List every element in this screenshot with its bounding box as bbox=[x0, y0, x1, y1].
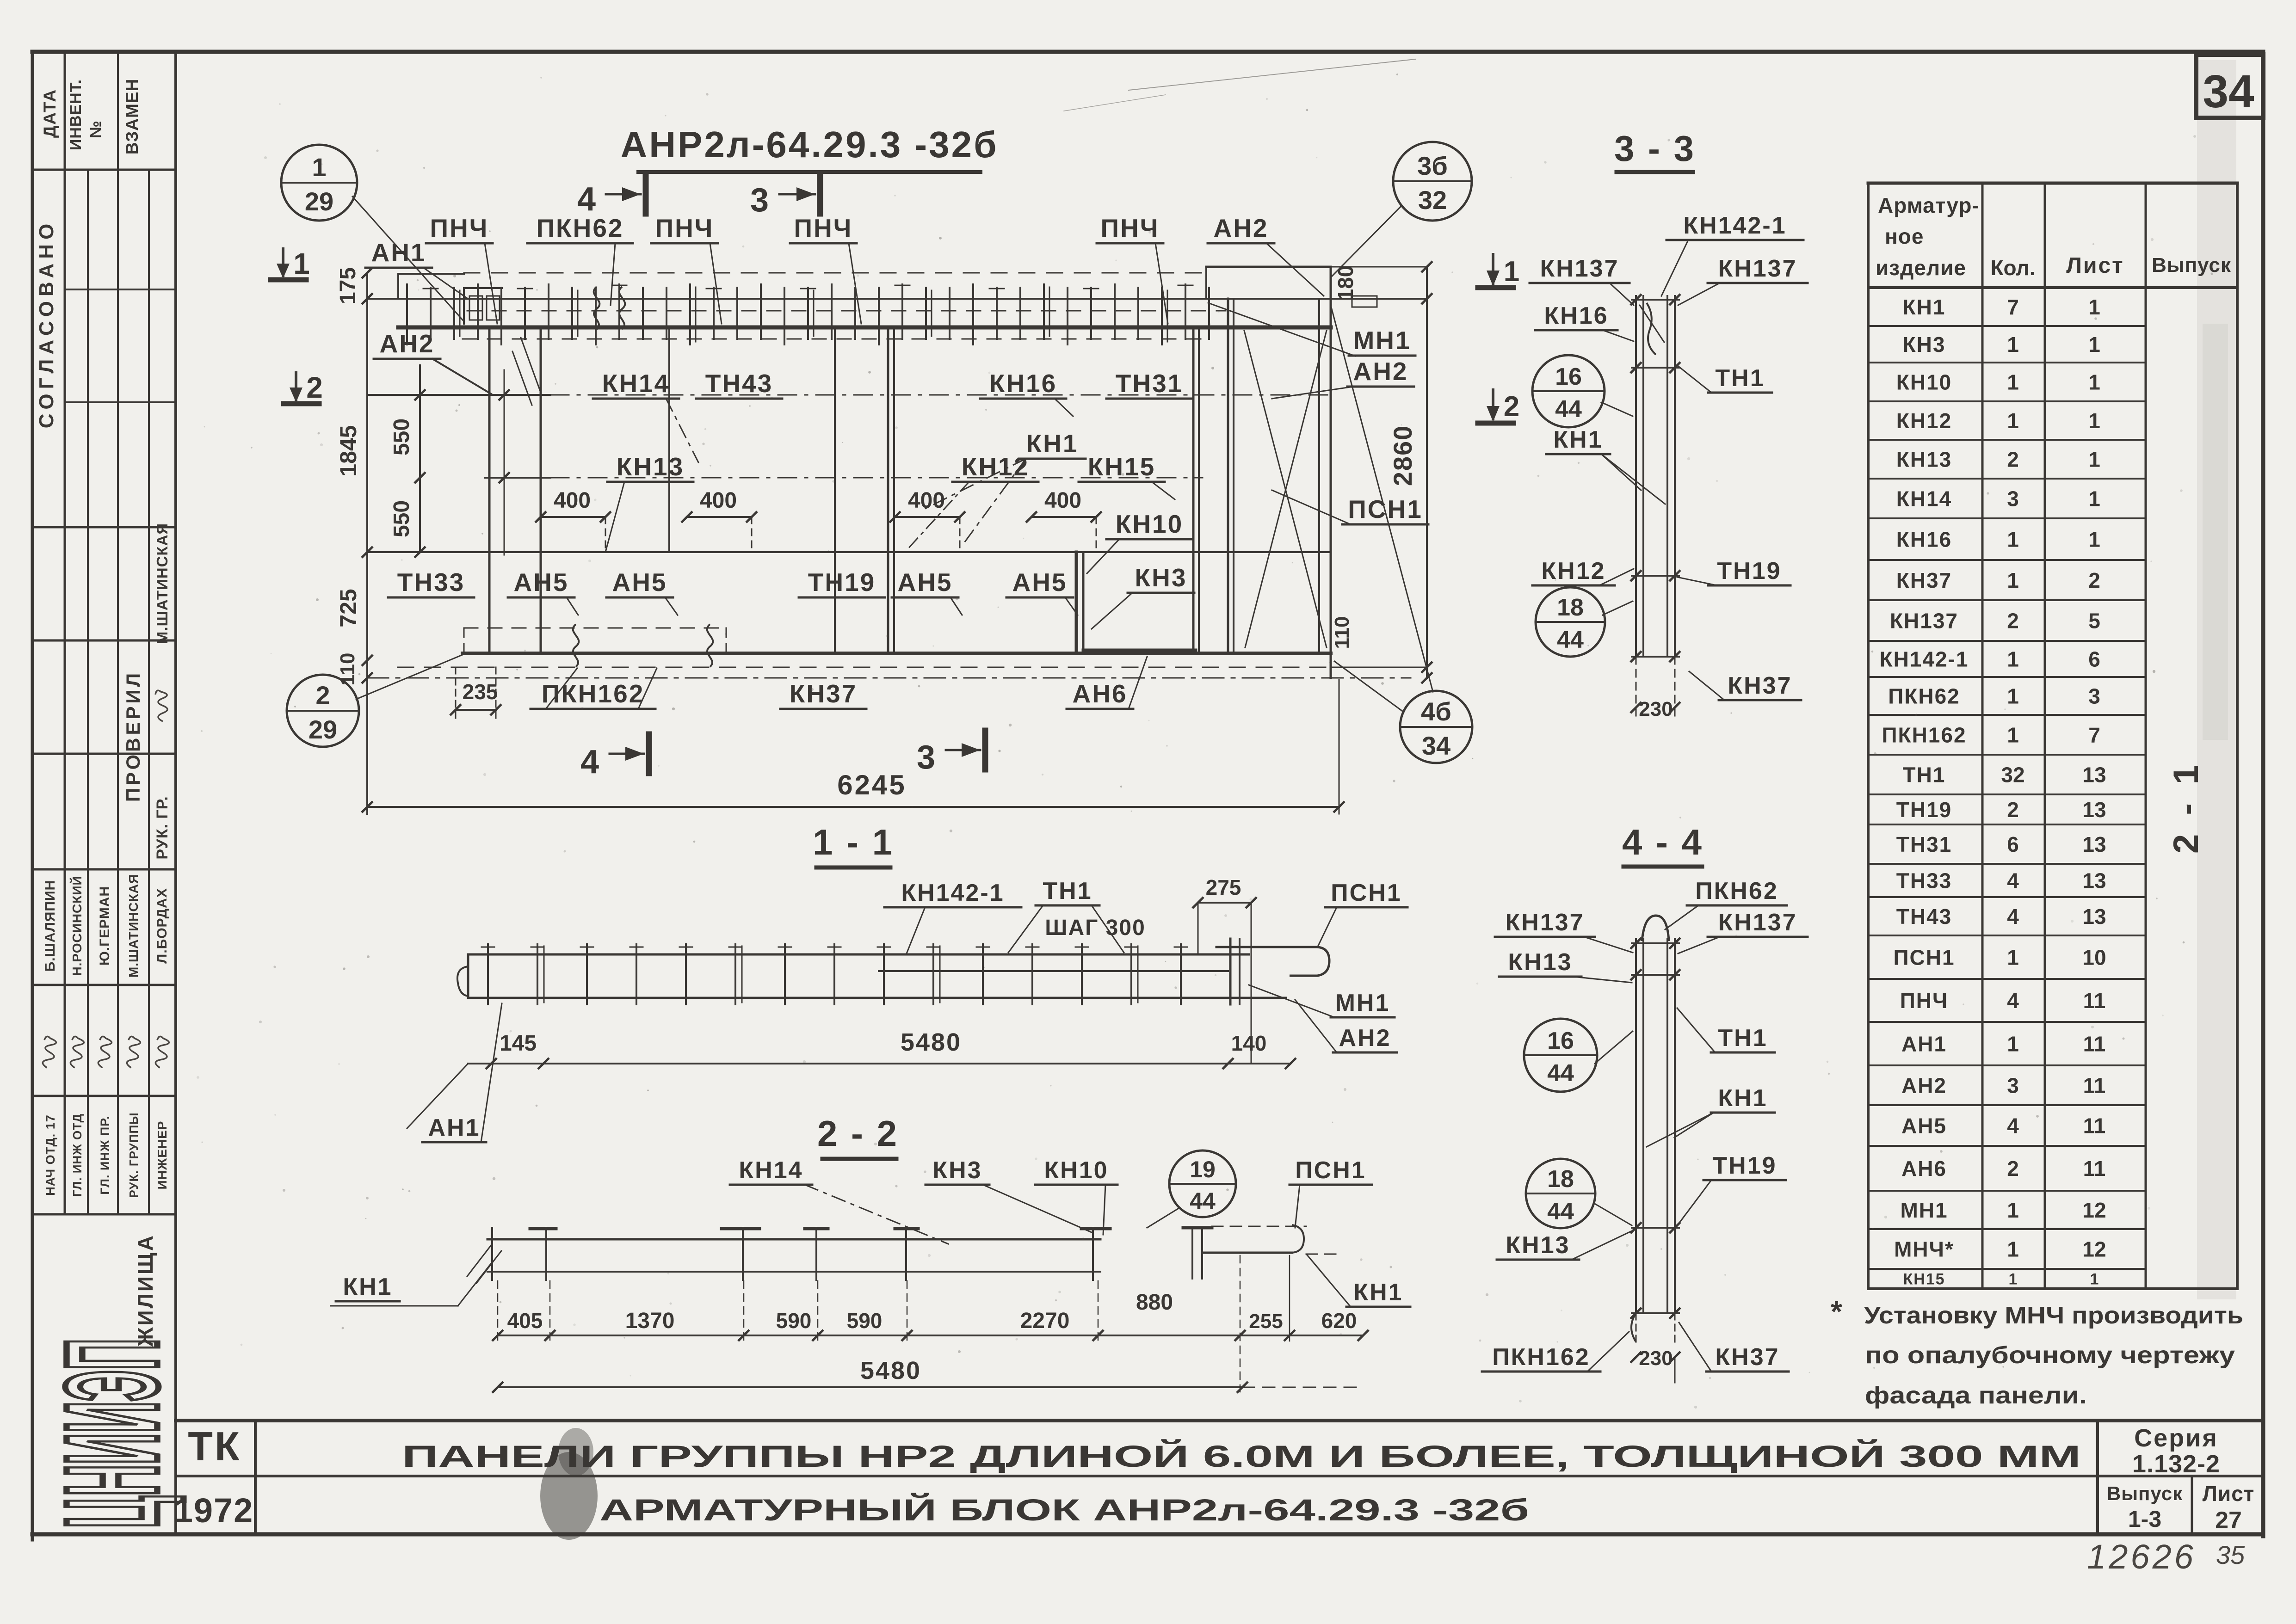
svg-text:КН1: КН1 bbox=[343, 1273, 392, 1300]
svg-text:МН1: МН1 bbox=[1900, 1198, 1948, 1222]
svg-text:1: 1 bbox=[2088, 332, 2100, 357]
svg-text:1: 1 bbox=[293, 247, 310, 280]
svg-text:КН10: КН10 bbox=[1116, 510, 1183, 538]
svg-text:12: 12 bbox=[2082, 1237, 2106, 1261]
right bay diagonals bbox=[1244, 331, 1327, 647]
stamp strip horizontals bbox=[32, 169, 176, 171]
svg-text:ное: ное bbox=[1885, 224, 1924, 248]
svg-text:КН13: КН13 bbox=[617, 452, 684, 481]
bottom left dashed box bbox=[464, 627, 726, 629]
svg-text:16: 16 bbox=[1547, 1027, 1574, 1054]
svg-text:5: 5 bbox=[2088, 609, 2100, 633]
svg-text:18: 18 bbox=[1547, 1166, 1574, 1193]
svg-text:18: 18 bbox=[1557, 594, 1584, 621]
svg-text:КН3: КН3 bbox=[1135, 563, 1187, 592]
svg-text:КН10: КН10 bbox=[1044, 1157, 1108, 1184]
4-4 bottom hook bbox=[1631, 1313, 1636, 1342]
svg-text:КН37: КН37 bbox=[1896, 568, 1952, 592]
svg-text:4: 4 bbox=[2007, 989, 2019, 1013]
svg-text:620: 620 bbox=[1321, 1309, 1357, 1333]
svg-text:М.ШАТИНСКАЯ: М.ШАТИНСКАЯ bbox=[126, 874, 141, 978]
title block TK cell bbox=[254, 1421, 257, 1534]
title block top line bbox=[176, 1419, 2263, 1422]
svg-text:13: 13 bbox=[2082, 798, 2106, 822]
svg-text:1: 1 bbox=[2007, 409, 2019, 433]
svg-text:КН1: КН1 bbox=[1903, 295, 1946, 319]
svg-text:1: 1 bbox=[312, 153, 326, 182]
scan smudge right strip bbox=[2197, 60, 2236, 1299]
svg-text:1: 1 bbox=[2088, 409, 2100, 433]
svg-text:АН2: АН2 bbox=[379, 329, 434, 358]
svg-text:№: № bbox=[87, 121, 105, 138]
svg-text:6245: 6245 bbox=[837, 769, 906, 800]
svg-text:230: 230 bbox=[1639, 698, 1673, 720]
svg-text:11: 11 bbox=[2083, 1114, 2106, 1138]
svg-text:590: 590 bbox=[776, 1309, 812, 1333]
svg-text:АРМАТУРНЫЙ БЛОК АНР2л-64.2: АРМАТУРНЫЙ БЛОК АНР2л-64.29.3 -32б bbox=[599, 1492, 1529, 1527]
svg-text:ТН19: ТН19 bbox=[808, 568, 876, 597]
svg-text:2: 2 bbox=[2007, 448, 2019, 472]
svg-text:32: 32 bbox=[1418, 185, 1447, 215]
svg-text:Арматур-: Арматур- bbox=[1878, 193, 1980, 217]
page frame right border bbox=[2261, 52, 2265, 1536]
svg-text:ГЛ. ИНЖ ОТД: ГЛ. ИНЖ ОТД bbox=[70, 1113, 84, 1197]
svg-text:2: 2 bbox=[2007, 609, 2019, 633]
svg-text:МНЧ*: МНЧ* bbox=[1894, 1237, 1954, 1261]
circle 16/44 (4-4) bbox=[1524, 1019, 1597, 1092]
svg-text:3: 3 bbox=[2007, 487, 2019, 511]
svg-text:255: 255 bbox=[1249, 1310, 1283, 1333]
parts table frame bbox=[1868, 182, 2237, 185]
title block right cells bbox=[2096, 1421, 2099, 1534]
svg-text:3: 3 bbox=[2007, 1074, 2019, 1098]
table row lines bbox=[1868, 325, 2146, 327]
2-2 extension lines bbox=[497, 1281, 499, 1341]
svg-text:КН10: КН10 bbox=[1896, 370, 1952, 394]
1-1 dim 275 bbox=[1198, 902, 1251, 904]
svg-text:175: 175 bbox=[336, 267, 360, 304]
svg-text:ШАГ 300: ШАГ 300 bbox=[1045, 916, 1146, 940]
svg-text:1: 1 bbox=[2088, 448, 2100, 472]
svg-text:ПКН62: ПКН62 bbox=[1695, 878, 1778, 904]
svg-text:МН1: МН1 bbox=[1335, 990, 1390, 1016]
svg-text:ПАНЕЛИ ГРУППЫ НР2 ДЛИНОЙ 6: ПАНЕЛИ ГРУППЫ НР2 ДЛИНОЙ 6.0М И БОЛЕЕ, Т… bbox=[402, 1439, 2081, 1473]
svg-text:2 - 2: 2 - 2 bbox=[817, 1113, 899, 1154]
svg-text:АН6: АН6 bbox=[1901, 1156, 1947, 1181]
svg-text:КН14: КН14 bbox=[602, 369, 670, 398]
svg-text:ПНЧ: ПНЧ bbox=[1900, 989, 1949, 1013]
svg-text:ТН33: ТН33 bbox=[397, 568, 465, 597]
panel top ledge bbox=[1206, 266, 1331, 268]
svg-text:550: 550 bbox=[389, 500, 414, 537]
dim line left x794 bbox=[366, 273, 368, 814]
svg-text:1: 1 bbox=[2007, 332, 2019, 357]
svg-text:1: 1 bbox=[1504, 256, 1519, 288]
svg-text:3: 3 bbox=[2088, 684, 2100, 708]
svg-text:550: 550 bbox=[389, 418, 414, 455]
svg-text:34: 34 bbox=[2203, 66, 2254, 117]
svg-text:1: 1 bbox=[2090, 1271, 2099, 1288]
svg-text:1: 1 bbox=[2007, 1237, 2019, 1261]
svg-text:КН16: КН16 bbox=[1896, 528, 1952, 552]
section 3-3 column bbox=[1635, 296, 1637, 657]
rib x1447 bbox=[668, 329, 670, 552]
svg-text:Выпуск: Выпуск bbox=[2152, 254, 2231, 277]
svg-text:35: 35 bbox=[2216, 1540, 2245, 1569]
svg-text:1: 1 bbox=[2007, 647, 2019, 671]
svg-text:КН12: КН12 bbox=[1541, 558, 1605, 584]
svg-text:1: 1 bbox=[2009, 1271, 2018, 1288]
svg-text:КН3: КН3 bbox=[1903, 332, 1946, 357]
section mark 1 near 3-3 bbox=[1478, 285, 1513, 290]
svg-text:ВЗАМЕН: ВЗАМЕН bbox=[123, 79, 142, 154]
svg-text:КН142-1: КН142-1 bbox=[901, 880, 1004, 906]
svg-text:КН12: КН12 bbox=[1896, 409, 1952, 433]
svg-text:275: 275 bbox=[1206, 875, 1241, 899]
1-1 dim line bbox=[468, 1063, 1290, 1064]
svg-text:4б: 4б bbox=[1421, 697, 1451, 726]
scan scratch bbox=[1129, 59, 1415, 90]
svg-text:110: 110 bbox=[1331, 616, 1353, 649]
svg-text:РУК. ГР.: РУК. ГР. bbox=[154, 796, 171, 859]
svg-text:КН137: КН137 bbox=[1505, 909, 1584, 936]
svg-text:АН2: АН2 bbox=[1901, 1074, 1947, 1098]
svg-text:КН142-1: КН142-1 bbox=[1880, 647, 1969, 671]
svg-text:КН1: КН1 bbox=[1718, 1085, 1767, 1112]
svg-text:ТК: ТК bbox=[188, 1423, 241, 1469]
svg-text:13: 13 bbox=[2082, 869, 2106, 893]
stamp signature (проверил) bbox=[155, 690, 167, 721]
svg-text:32: 32 bbox=[2001, 763, 2024, 787]
extension x1090 bbox=[504, 370, 505, 555]
bottom squiggles ПКН162 bbox=[573, 624, 579, 667]
svg-text:1972: 1972 bbox=[174, 1491, 254, 1530]
svg-text:ИНЖЕНЕР: ИНЖЕНЕР bbox=[155, 1121, 169, 1190]
bottom thick line bbox=[463, 652, 1331, 655]
svg-text:ТН31: ТН31 bbox=[1896, 832, 1952, 856]
svg-text:Ю.ГЕРМАН: Ю.ГЕРМАН bbox=[97, 886, 112, 966]
svg-text:4: 4 bbox=[2007, 904, 2019, 929]
svg-text:ТН19: ТН19 bbox=[1717, 558, 1781, 584]
svg-text:АНР2л-64.29.3 -32б: АНР2л-64.29.3 -32б bbox=[620, 124, 998, 165]
rib x1058 bbox=[488, 329, 491, 653]
rib x2655 pair bbox=[1227, 299, 1229, 653]
svg-text:ИНВЕНТ.: ИНВЕНТ. bbox=[67, 79, 85, 150]
circle 4б/34 bbox=[1400, 691, 1472, 763]
svg-text:5480: 5480 bbox=[901, 1028, 962, 1056]
svg-text:1: 1 bbox=[2088, 370, 2100, 394]
svg-text:44: 44 bbox=[1557, 627, 1584, 653]
svg-text:1: 1 bbox=[2007, 568, 2019, 592]
dim line x908 (550s) bbox=[419, 365, 421, 552]
2-2 left hatches bbox=[467, 1244, 492, 1276]
svg-text:ПНЧ: ПНЧ bbox=[655, 214, 714, 242]
svg-text:1-3: 1-3 bbox=[2128, 1506, 2161, 1532]
svg-text:145: 145 bbox=[500, 1031, 537, 1056]
svg-text:235: 235 bbox=[463, 680, 498, 704]
panel right edge bbox=[1330, 267, 1332, 678]
1-1 right end ПСН1 piece bbox=[1216, 946, 1317, 948]
2-2 stirrup caps bbox=[530, 1227, 556, 1230]
svg-text:ГЛ. ИНЖ ПР.: ГЛ. ИНЖ ПР. bbox=[98, 1115, 112, 1194]
panel top line bbox=[367, 298, 1427, 300]
svg-text:СОГЛАСОВАНО: СОГЛАСОВАНО bbox=[35, 219, 58, 429]
svg-text:АН2: АН2 bbox=[1339, 1025, 1391, 1052]
interior line y1194 bbox=[367, 551, 1331, 553]
svg-text:КН14: КН14 bbox=[739, 1157, 803, 1184]
interior line y854 bbox=[367, 394, 550, 396]
svg-text:1: 1 bbox=[2007, 1198, 2019, 1222]
2-2 beam chords bbox=[488, 1238, 1100, 1241]
svg-text:44: 44 bbox=[1555, 396, 1582, 423]
svg-text:1 - 1: 1 - 1 bbox=[813, 822, 894, 862]
dim 6245 bbox=[367, 806, 1339, 808]
svg-text:ПНЧ: ПНЧ bbox=[1101, 214, 1160, 242]
svg-text:КН137: КН137 bbox=[1890, 609, 1958, 633]
svg-text:ДАТА: ДАТА bbox=[40, 89, 59, 138]
svg-text:КН37: КН37 bbox=[790, 679, 857, 708]
4-4 top loop bbox=[1642, 916, 1669, 941]
svg-text:КН142-1: КН142-1 bbox=[1683, 212, 1786, 239]
svg-text:13: 13 bbox=[2082, 832, 2106, 856]
svg-text:1.132-2: 1.132-2 bbox=[2132, 1450, 2220, 1478]
section mark 2 near 3-3 bbox=[1478, 421, 1513, 426]
svg-text:4 - 4: 4 - 4 bbox=[1622, 822, 1703, 862]
svg-text:880: 880 bbox=[1136, 1290, 1173, 1315]
dim 400 at 2230 bbox=[1031, 516, 1096, 518]
svg-text:КН137: КН137 bbox=[1540, 255, 1619, 282]
svg-text:КН137: КН137 bbox=[1718, 909, 1797, 936]
svg-text:29: 29 bbox=[305, 187, 333, 216]
circle 18/44 (3-3) bbox=[1536, 587, 1605, 657]
svg-text:12626: 12626 bbox=[2087, 1538, 2196, 1576]
svg-text:Установку МНЧ производить: Установку МНЧ производить bbox=[1864, 1302, 2243, 1329]
svg-text:ТН1: ТН1 bbox=[1718, 1025, 1767, 1052]
svg-text:по опалубочному чертежу: по опалубочному чертежу bbox=[1865, 1342, 2235, 1369]
svg-text:44: 44 bbox=[1547, 1198, 1574, 1225]
svg-text:ТН19: ТН19 bbox=[1896, 798, 1952, 822]
svg-text:АН5: АН5 bbox=[1012, 568, 1067, 597]
svg-text:ПСН1: ПСН1 bbox=[1295, 1157, 1366, 1184]
dim 400 at 1935 bbox=[895, 516, 960, 518]
svg-text:АН5: АН5 bbox=[513, 568, 568, 597]
svg-text:ТН43: ТН43 bbox=[1896, 904, 1952, 929]
svg-text:КН137: КН137 bbox=[1718, 255, 1797, 282]
svg-text:ТН43: ТН43 bbox=[705, 369, 773, 398]
svg-text:3б: 3б bbox=[1417, 151, 1448, 180]
svg-text:ТН1: ТН1 bbox=[1903, 763, 1946, 787]
svg-text:3: 3 bbox=[917, 739, 935, 776]
scan specks bbox=[197, 74, 2213, 1409]
svg-text:6: 6 bbox=[2088, 647, 2100, 671]
svg-text:44: 44 bbox=[1190, 1188, 1216, 1214]
rib x1920 pair bbox=[887, 329, 889, 653]
svg-text:КН16: КН16 bbox=[1544, 302, 1608, 329]
svg-text:КН37: КН37 bbox=[1715, 1344, 1779, 1371]
svg-text:КН1: КН1 bbox=[1353, 1279, 1403, 1306]
svg-text:ПКН62: ПКН62 bbox=[537, 214, 624, 242]
svg-text:1: 1 bbox=[2007, 946, 2019, 970]
rib x1805 bbox=[834, 329, 836, 653]
svg-text:2: 2 bbox=[315, 681, 330, 710]
svg-text:ЦНИИЭП: ЦНИИЭП bbox=[39, 1339, 186, 1528]
svg-text:Кол.: Кол. bbox=[1990, 256, 2035, 280]
circle 19/44 (2-2) bbox=[1169, 1150, 1236, 1217]
svg-text:КН15: КН15 bbox=[1903, 1271, 1945, 1288]
svg-text:Выпуск: Выпуск bbox=[2107, 1483, 2183, 1504]
svg-text:4: 4 bbox=[2007, 1114, 2019, 1138]
dim 400 at 1485 bbox=[687, 516, 752, 518]
svg-text:*: * bbox=[1831, 1295, 1842, 1328]
svg-text:КН16: КН16 bbox=[989, 369, 1057, 398]
svg-text:фасада панели.: фасада панели. bbox=[1865, 1382, 2087, 1409]
stamp signatures row bbox=[40, 1036, 57, 1069]
svg-text:1: 1 bbox=[2007, 528, 2019, 552]
svg-text:13: 13 bbox=[2082, 904, 2106, 929]
svg-text:27: 27 bbox=[2215, 1507, 2242, 1534]
svg-text:140: 140 bbox=[1231, 1031, 1267, 1055]
page frame bottom border (title block bottom) bbox=[32, 1532, 2263, 1537]
svg-text:2860: 2860 bbox=[1388, 425, 1417, 486]
2-2 right piece bbox=[1191, 1229, 1193, 1279]
svg-text:2: 2 bbox=[1504, 391, 1519, 423]
window opening bbox=[1075, 552, 1078, 653]
svg-text:2: 2 bbox=[2007, 798, 2019, 822]
svg-text:1: 1 bbox=[2088, 295, 2100, 319]
svg-text:КН3: КН3 bbox=[932, 1157, 982, 1184]
2-2 dim row 2 (5480) bbox=[498, 1386, 1242, 1388]
svg-text:ТН31: ТН31 bbox=[1116, 369, 1184, 398]
svg-text:6: 6 bbox=[2007, 832, 2019, 856]
svg-text:ПСН1: ПСН1 bbox=[1331, 880, 1401, 906]
svg-text:ЖИЛИЩА: ЖИЛИЩА bbox=[133, 1234, 157, 1347]
svg-text:КН13: КН13 bbox=[1896, 448, 1952, 472]
dim 235 bbox=[456, 709, 496, 711]
svg-text:4: 4 bbox=[580, 744, 599, 781]
svg-text:11: 11 bbox=[2083, 1032, 2106, 1056]
section 4-4 column bbox=[1635, 939, 1637, 1313]
svg-text:ТН1: ТН1 bbox=[1043, 878, 1092, 904]
circle 18/44 (4-4) bbox=[1526, 1159, 1595, 1228]
svg-text:АН6: АН6 bbox=[1072, 679, 1127, 708]
svg-text:10: 10 bbox=[2082, 946, 2106, 970]
svg-text:ПКН62: ПКН62 bbox=[1888, 684, 1960, 708]
svg-text:400: 400 bbox=[1044, 488, 1081, 513]
3-3 top hook detail bbox=[1647, 303, 1656, 355]
svg-text:АН1: АН1 bbox=[371, 238, 426, 267]
1-1 beam chords bbox=[468, 953, 1249, 956]
svg-text:Серия: Серия bbox=[2134, 1424, 2218, 1452]
svg-text:ПСН1: ПСН1 bbox=[1348, 495, 1423, 523]
page frame top border bbox=[32, 50, 2263, 54]
svg-text:11: 11 bbox=[2083, 1074, 2106, 1098]
mesh left end bracket bbox=[463, 288, 465, 324]
svg-text:110: 110 bbox=[336, 653, 359, 686]
svg-text:1845: 1845 bbox=[335, 425, 361, 476]
svg-text:400: 400 bbox=[554, 488, 591, 513]
page frame left border bbox=[31, 52, 34, 1540]
1-1 left end hook bbox=[467, 954, 469, 998]
svg-text:КН15: КН15 bbox=[1088, 452, 1155, 481]
dim 400 at 1169 bbox=[541, 516, 605, 518]
svg-text:3 - 3: 3 - 3 bbox=[1614, 128, 1696, 169]
svg-text:16: 16 bbox=[1555, 363, 1582, 390]
svg-text:АН5: АН5 bbox=[612, 568, 667, 597]
svg-text:ТН33: ТН33 bbox=[1896, 869, 1952, 893]
svg-text:19: 19 bbox=[1190, 1156, 1216, 1182]
svg-text:НАЧ ОТД. 17: НАЧ ОТД. 17 bbox=[43, 1114, 57, 1196]
svg-text:4: 4 bbox=[2007, 869, 2019, 893]
svg-text:2: 2 bbox=[2088, 568, 2100, 592]
svg-text:КН13: КН13 bbox=[1508, 949, 1572, 976]
svg-text:АН5: АН5 bbox=[897, 568, 952, 597]
section mark 1 left bbox=[271, 277, 306, 283]
2-2 verticals bbox=[491, 1228, 493, 1280]
svg-text:ТН1: ТН1 bbox=[1715, 365, 1765, 392]
svg-text:11: 11 bbox=[2083, 989, 2106, 1013]
bottom dashes bbox=[398, 667, 1383, 668]
panel top band dashes bbox=[467, 310, 1226, 312]
sheet number box 34 bbox=[2196, 55, 2263, 118]
svg-text:29: 29 bbox=[309, 715, 337, 744]
interior line y1033 bbox=[485, 477, 550, 479]
2-2 dim row 1 bbox=[498, 1335, 1363, 1336]
panel top dashed outline bbox=[464, 272, 1206, 274]
stamp strip verticals bbox=[64, 52, 66, 1214]
svg-text:М.ШАТИНСКАЯ: М.ШАТИНСКАЯ bbox=[154, 523, 171, 644]
svg-text:7: 7 bbox=[2088, 723, 2100, 747]
svg-text:Б.ШАЛЯПИН: Б.ШАЛЯПИН bbox=[43, 880, 58, 972]
svg-text:АН1: АН1 bbox=[1901, 1032, 1947, 1056]
svg-text:МН1: МН1 bbox=[1353, 326, 1411, 355]
svg-text:44: 44 bbox=[1547, 1060, 1574, 1087]
svg-text:1370: 1370 bbox=[625, 1309, 675, 1333]
3-3 bottom dashes bbox=[1636, 657, 1637, 721]
svg-text:590: 590 bbox=[847, 1309, 883, 1333]
rib hatches bbox=[521, 338, 540, 391]
svg-text:АН2: АН2 bbox=[1213, 214, 1268, 242]
scan smudge title block bbox=[540, 1452, 598, 1540]
rib x1169 bbox=[540, 329, 542, 653]
panel left ledge bbox=[398, 273, 464, 275]
svg-text:2270: 2270 bbox=[1020, 1309, 1070, 1333]
svg-text:ТН19: ТН19 bbox=[1712, 1152, 1777, 1179]
svg-text:1: 1 bbox=[2007, 684, 2019, 708]
svg-text:КН14: КН14 bbox=[1896, 487, 1952, 511]
section mark 2 left bbox=[284, 401, 319, 406]
svg-text:7: 7 bbox=[2007, 295, 2019, 319]
svg-text:1: 1 bbox=[2088, 487, 2100, 511]
svg-text:405: 405 bbox=[507, 1309, 543, 1333]
circle 1/29 bbox=[281, 145, 357, 221]
circle 2/29 bbox=[287, 675, 359, 747]
svg-text:КН12: КН12 bbox=[962, 452, 1029, 481]
panel top chord (thick) bbox=[398, 326, 1331, 330]
title block mid line bbox=[176, 1475, 2263, 1477]
svg-text:12: 12 bbox=[2082, 1198, 2106, 1222]
svg-text:1: 1 bbox=[2007, 723, 2019, 747]
svg-text:ПКН162: ПКН162 bbox=[1882, 723, 1966, 747]
svg-text:РУК. ГРУППЫ: РУК. ГРУППЫ bbox=[127, 1112, 141, 1198]
svg-text:2: 2 bbox=[306, 371, 323, 404]
svg-text:2 - 1: 2 - 1 bbox=[2166, 760, 2206, 854]
dim line 2860 bbox=[1426, 267, 1428, 678]
svg-text:Л.БОРДАХ: Л.БОРДАХ bbox=[154, 888, 170, 963]
svg-text:АН5: АН5 bbox=[1901, 1114, 1947, 1138]
svg-text:Лист: Лист bbox=[2203, 1482, 2255, 1506]
svg-text:1: 1 bbox=[2088, 528, 2100, 552]
svg-text:изделие: изделие bbox=[1876, 256, 1966, 280]
